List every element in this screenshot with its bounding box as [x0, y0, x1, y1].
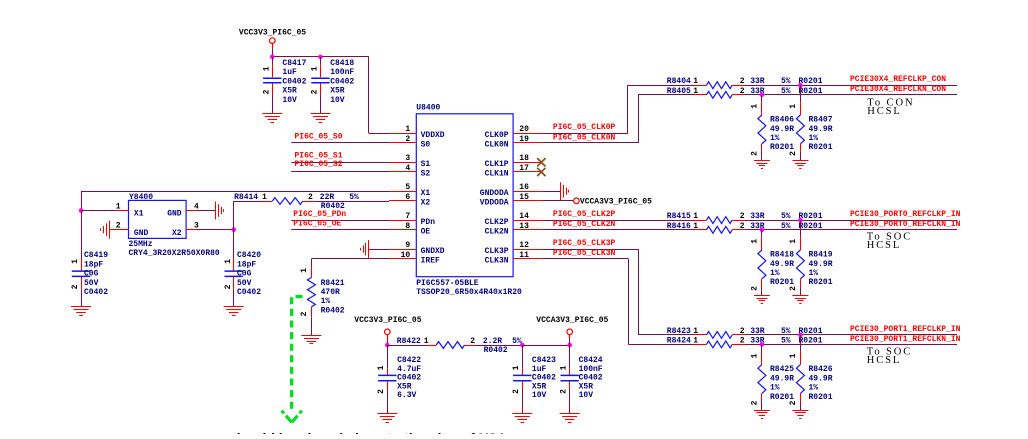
svg-text:1: 1 [116, 202, 121, 211]
annotation To SOC HCSL (port1) [867, 347, 912, 367]
svg-text:470R: 470R [321, 288, 340, 297]
svg-text:10V: 10V [579, 391, 594, 400]
svg-text:CLK2P: CLK2P [485, 218, 509, 227]
capacitor C8417 [263, 57, 307, 114]
svg-text:33R: 33R [750, 212, 765, 221]
net label PI6C_05_CLK3N [553, 249, 616, 258]
net label PI6C_05_OE [293, 220, 341, 229]
svg-text:1: 1 [693, 212, 698, 221]
svg-text:C0402: C0402 [579, 374, 603, 383]
resistor R8422 [387, 337, 522, 355]
svg-text:11: 11 [519, 251, 529, 260]
net label PI6C_05_CLK3P [553, 239, 616, 248]
svg-text:2: 2 [789, 400, 798, 405]
svg-text:PI6C_05_CLK2P: PI6C_05_CLK2P [553, 210, 616, 219]
svg-text:2: 2 [740, 87, 745, 96]
resistor R8418 [751, 230, 795, 296]
svg-text:2: 2 [308, 193, 313, 202]
svg-text:2: 2 [512, 389, 521, 394]
junction at C8417 [270, 55, 275, 60]
svg-text:CLK0P: CLK0P [485, 131, 509, 140]
svg-text:1: 1 [405, 125, 410, 134]
svg-text:100nF: 100nF [579, 365, 603, 374]
ground of R8418 [754, 296, 770, 304]
svg-text:should be placed close to the: should be placed close to the pins of U8… [229, 430, 505, 434]
svg-text:1: 1 [377, 365, 386, 370]
svg-text:13: 13 [519, 222, 529, 231]
svg-text:X5R: X5R [532, 382, 547, 391]
svg-text:PI6C_05_S2: PI6C_05_S2 [295, 160, 343, 169]
svg-text:C0G: C0G [237, 270, 252, 279]
svg-text:1: 1 [262, 193, 267, 202]
junction R8406 on N wire [760, 93, 765, 98]
no-connect X pin 17 [537, 168, 545, 176]
svg-text:22R: 22R [320, 193, 335, 202]
ground of R8421 [301, 336, 321, 344]
resistor R8424 [667, 336, 957, 348]
svg-text:1%: 1% [809, 269, 819, 278]
svg-text:3: 3 [405, 154, 410, 163]
wire rail corner down to pin 1 [369, 57, 390, 134]
svg-text:C0402: C0402 [84, 288, 108, 297]
svg-text:1: 1 [263, 66, 272, 71]
svg-text:PI6C_05_OE: PI6C_05_OE [293, 220, 341, 229]
svg-text:PI6C_05_PDn: PI6C_05_PDn [293, 210, 346, 219]
svg-text:1: 1 [751, 104, 760, 109]
svg-text:R0201: R0201 [799, 336, 823, 345]
svg-text:1: 1 [693, 77, 698, 86]
wire PI6C_05_S1 [291, 162, 389, 164]
svg-text:5%: 5% [781, 77, 791, 86]
ground of C8419 [71, 307, 91, 316]
svg-text:PCIE30X4_REFCLKN_CON: PCIE30X4_REFCLKN_CON [850, 85, 946, 94]
svg-text:HCSL: HCSL [867, 355, 901, 366]
svg-text:VCCA3V3_PI6C_05: VCCA3V3_PI6C_05 [580, 198, 652, 207]
capacitor C8419 [71, 251, 108, 306]
power symbol VCC3V3_PI6C_05 (bottom) [354, 316, 421, 339]
svg-text:1: 1 [789, 104, 798, 109]
svg-text:18: 18 [519, 154, 529, 163]
svg-text:OE: OE [421, 228, 431, 237]
svg-text:5%: 5% [781, 327, 791, 336]
svg-text:C0402: C0402 [237, 288, 261, 297]
svg-text:R8424: R8424 [667, 336, 691, 345]
svg-text:1: 1 [693, 336, 698, 345]
net label PCIE30_PORT0_REFCLKN_IN [850, 220, 961, 229]
svg-text:33R: 33R [750, 77, 765, 86]
svg-text:1: 1 [751, 353, 760, 358]
svg-text:R8414: R8414 [234, 193, 258, 202]
svg-text:4: 4 [405, 164, 410, 173]
svg-text:10V: 10V [282, 96, 297, 105]
svg-text:2: 2 [300, 311, 309, 316]
svg-text:VDDXD: VDDXD [421, 131, 445, 140]
cropped note text (bottom edge) [229, 430, 505, 439]
wire crystal pin 1 to C8419 [81, 211, 83, 259]
svg-text:1%: 1% [770, 269, 780, 278]
svg-text:R0402: R0402 [484, 346, 508, 355]
svg-text:2: 2 [224, 284, 233, 289]
svg-text:IREF: IREF [421, 257, 440, 266]
ground of R8406 [754, 161, 770, 169]
svg-text:C8418: C8418 [330, 59, 354, 68]
svg-text:R8421: R8421 [321, 279, 345, 288]
svg-text:PDn: PDn [421, 218, 436, 227]
svg-text:2.2R: 2.2R [483, 337, 502, 346]
net label PCIE30X4_REFCLKP_CON [850, 75, 946, 84]
power symbol VCCA3V3_PI6C_05 (bottom) [536, 316, 608, 345]
svg-text:PI6C_05_CLK2N: PI6C_05_CLK2N [553, 220, 616, 229]
svg-text:1uF: 1uF [282, 68, 297, 77]
svg-text:C0402: C0402 [330, 78, 354, 87]
junction crystal pin 3 [231, 227, 236, 232]
svg-text:2: 2 [751, 400, 760, 405]
power symbol VCC3V3_PI6C_05 (top) [239, 29, 306, 49]
ground of R8425 [754, 411, 770, 419]
svg-text:2: 2 [560, 389, 569, 394]
svg-text:2: 2 [71, 284, 80, 289]
svg-text:1: 1 [693, 87, 698, 96]
svg-text:49.9R: 49.9R [809, 260, 833, 269]
ground at pin 9 GNDXD [361, 240, 369, 258]
svg-text:1: 1 [693, 222, 698, 231]
svg-text:49.9R: 49.9R [770, 260, 794, 269]
svg-text:S0: S0 [421, 141, 431, 150]
IC U8400 [389, 103, 542, 297]
svg-text:19: 19 [519, 135, 529, 144]
capacitor C8420 [224, 230, 261, 307]
wire PI6C_05_PDn [291, 220, 389, 222]
svg-text:PCIE30_PORT0_REFCLKP_IN: PCIE30_PORT0_REFCLKP_IN [850, 210, 961, 219]
svg-text:18pF: 18pF [84, 260, 103, 269]
svg-text:10: 10 [401, 251, 411, 260]
wire CLK0N [542, 95, 695, 143]
svg-text:C0402: C0402 [282, 78, 306, 87]
svg-text:1: 1 [424, 337, 429, 346]
wire PI6C_05_OE [291, 229, 389, 231]
svg-text:2: 2 [751, 286, 760, 291]
junction C8422 [385, 343, 390, 348]
svg-text:1%: 1% [321, 297, 331, 306]
resistor R8404 [667, 77, 957, 88]
wire CLK2N [542, 229, 695, 231]
svg-text:50V: 50V [84, 279, 99, 288]
wire crystal pin 1 horizontal [81, 210, 118, 212]
svg-text:PI6C_05_S0: PI6C_05_S0 [295, 133, 343, 142]
resistor R8407 [789, 85, 833, 160]
svg-text:HCSL: HCSL [867, 240, 901, 251]
svg-text:PI6C_05_CLK3P: PI6C_05_CLK3P [553, 239, 616, 248]
svg-text:1: 1 [311, 66, 320, 71]
svg-text:14: 14 [519, 212, 529, 221]
net label PI6C_05_CLK0P [553, 123, 616, 132]
svg-text:X5R: X5R [397, 382, 412, 391]
svg-text:2: 2 [751, 151, 760, 156]
svg-text:CLK3N: CLK3N [485, 257, 509, 266]
svg-text:R8405: R8405 [667, 87, 691, 96]
svg-text:R0201: R0201 [809, 143, 833, 152]
wire X1 net to U8400 pin 5 [81, 191, 389, 193]
svg-text:2: 2 [740, 77, 745, 86]
net label PI6C_05_CLK2P [553, 210, 616, 219]
svg-text:5%: 5% [781, 222, 791, 231]
svg-text:VCC3V3_PI6C_05: VCC3V3_PI6C_05 [239, 29, 306, 38]
net label PI6C_05_CLK2N [553, 220, 616, 229]
ground of C8422 [377, 414, 397, 423]
svg-text:R0402: R0402 [321, 306, 345, 315]
wire crystal pin 3 to junction [196, 229, 234, 231]
svg-text:1: 1 [512, 365, 521, 370]
svg-text:CLK3P: CLK3P [485, 247, 509, 256]
capacitor C8423 [512, 345, 556, 413]
svg-text:C8419: C8419 [84, 251, 108, 260]
wire PI6C_05_S2 [291, 171, 389, 173]
net label PCIE30X4_REFCLKN_CON [850, 85, 946, 94]
svg-text:R0201: R0201 [770, 393, 794, 402]
svg-text:C0402: C0402 [397, 374, 421, 383]
svg-text:6: 6 [405, 193, 410, 202]
resistor R8414 [234, 193, 389, 211]
svg-text:1uF: 1uF [532, 365, 547, 374]
svg-text:S2: S2 [421, 170, 431, 179]
junction R8407 on P wire [798, 83, 803, 88]
ground of C8418 [311, 114, 331, 123]
svg-text:C8423: C8423 [532, 356, 556, 365]
resistor R8406 [751, 95, 795, 161]
svg-text:7: 7 [405, 212, 410, 221]
wire PI6C_05_S0 [291, 142, 389, 144]
svg-text:GND: GND [134, 229, 149, 238]
wire CLK3P [542, 249, 695, 335]
svg-text:5: 5 [405, 183, 410, 192]
svg-text:PCIE30_PORT1_REFCLKP_IN: PCIE30_PORT1_REFCLKP_IN [850, 325, 961, 334]
wire pin 9 to ground [369, 249, 389, 251]
svg-text:C8417: C8417 [282, 59, 306, 68]
resistor R8405 [667, 87, 957, 98]
svg-text:2: 2 [377, 389, 386, 394]
svg-text:12: 12 [519, 241, 529, 250]
annotation To CON HCSL [867, 98, 914, 118]
svg-text:R8426: R8426 [809, 365, 833, 374]
svg-text:R0201: R0201 [799, 222, 823, 231]
ground of R8426 [792, 411, 808, 419]
svg-text:2: 2 [789, 286, 798, 291]
svg-text:R0201: R0201 [770, 143, 794, 152]
svg-text:5%: 5% [781, 212, 791, 221]
svg-text:15: 15 [519, 193, 529, 202]
wire CLK0P [542, 85, 695, 133]
junction R8418 on N wire [760, 228, 765, 233]
wire top rail [272, 56, 369, 58]
svg-text:R0201: R0201 [799, 87, 823, 96]
junction C8424 / VCCA [567, 343, 572, 348]
svg-text:R0201: R0201 [809, 278, 833, 287]
svg-text:6.3V: 6.3V [397, 391, 416, 400]
svg-text:4: 4 [194, 202, 199, 211]
svg-text:PI6C_05_CLK3N: PI6C_05_CLK3N [553, 249, 616, 258]
svg-text:2: 2 [405, 135, 410, 144]
svg-text:1: 1 [789, 239, 798, 244]
resistor R8423 [667, 327, 957, 339]
svg-text:Y8400: Y8400 [129, 193, 153, 202]
svg-text:1: 1 [224, 259, 233, 264]
svg-text:5%: 5% [781, 87, 791, 96]
no-connect X pin 18 [537, 158, 545, 166]
svg-text:18pF: 18pF [237, 260, 256, 269]
capacitor C8424 [560, 345, 603, 413]
svg-text:PCIE30X4_REFCLKP_CON: PCIE30X4_REFCLKP_CON [850, 75, 946, 84]
svg-text:CRY4_3R20X2R50X0R80: CRY4_3R20X2R50X0R80 [129, 249, 220, 258]
svg-text:50V: 50V [237, 279, 252, 288]
svg-text:R8404: R8404 [667, 77, 691, 86]
svg-text:R8425: R8425 [770, 365, 794, 374]
svg-text:1: 1 [751, 239, 760, 244]
svg-text:X1: X1 [421, 189, 431, 198]
svg-text:2: 2 [740, 222, 745, 231]
svg-text:5%: 5% [781, 336, 791, 345]
svg-text:1: 1 [789, 353, 798, 358]
svg-text:CLK2N: CLK2N [485, 228, 509, 237]
junction C8423 [520, 343, 525, 348]
svg-text:PCIE30_PORT0_REFCLKN_IN: PCIE30_PORT0_REFCLKN_IN [850, 220, 961, 229]
svg-text:1: 1 [560, 365, 569, 370]
wire GNDODA pin 16 [542, 191, 560, 193]
wire VCC3V3 vertical to rail [272, 48, 274, 57]
wire VCC3V3 drop to bottom rail [387, 339, 389, 345]
svg-text:2: 2 [740, 212, 745, 221]
resistor R8419 [789, 220, 833, 295]
svg-text:R0201: R0201 [809, 393, 833, 402]
ground of C8417 [262, 114, 282, 123]
ground of R8419 [792, 296, 808, 304]
wire junction up to R8414 [234, 201, 263, 230]
resistor R8421 [300, 267, 345, 336]
svg-text:CLK1N: CLK1N [485, 170, 509, 179]
svg-text:X5R: X5R [579, 382, 594, 391]
wire crystal pin 4 to ground [196, 210, 215, 212]
svg-text:20: 20 [519, 125, 529, 134]
svg-text:PI6C_05_S1: PI6C_05_S1 [295, 152, 343, 161]
svg-text:49.9R: 49.9R [770, 374, 794, 383]
svg-text:CLK0N: CLK0N [485, 141, 509, 150]
resistor R8415 [667, 212, 957, 223]
wire X1 drop to crystal [81, 191, 83, 210]
svg-text:2: 2 [263, 89, 272, 94]
svg-text:1%: 1% [770, 134, 780, 143]
svg-text:C0G: C0G [84, 270, 99, 279]
svg-text:GNDXD: GNDXD [421, 247, 445, 256]
svg-text:25MHz: 25MHz [129, 240, 153, 249]
wire CLK3N [542, 259, 695, 345]
ground of C8424 [560, 414, 580, 423]
svg-text:PI6C557-05BLE: PI6C557-05BLE [416, 279, 479, 288]
svg-text:C8422: C8422 [397, 356, 421, 365]
net label PCIE30_PORT0_REFCLKP_IN [850, 210, 961, 219]
svg-text:8: 8 [405, 222, 410, 231]
svg-text:PCIE30_PORT1_REFCLKN_IN: PCIE30_PORT1_REFCLKN_IN [850, 335, 961, 344]
svg-text:49.9R: 49.9R [809, 125, 833, 134]
svg-text:2: 2 [470, 337, 475, 346]
svg-text:16: 16 [519, 183, 529, 192]
svg-text:VCC3V3_PI6C_05: VCC3V3_PI6C_05 [354, 316, 421, 325]
svg-text:C8420: C8420 [237, 251, 261, 260]
ground at crystal pin 2 [101, 221, 119, 239]
svg-text:X2: X2 [172, 229, 182, 238]
svg-text:9: 9 [405, 241, 410, 250]
svg-text:GND: GND [167, 210, 182, 219]
svg-text:R8415: R8415 [667, 212, 691, 221]
svg-text:4.7uF: 4.7uF [397, 365, 421, 374]
svg-text:1: 1 [71, 259, 80, 264]
ground at pin 16 [561, 182, 569, 200]
svg-text:5%: 5% [349, 193, 359, 202]
svg-text:X5R: X5R [282, 87, 297, 96]
junction R8426 on P wire [798, 333, 803, 338]
svg-text:R8423: R8423 [667, 327, 691, 336]
svg-text:R8406: R8406 [770, 116, 794, 125]
svg-text:C8424: C8424 [579, 356, 603, 365]
svg-text:33R: 33R [750, 327, 765, 336]
svg-text:100nF: 100nF [330, 68, 354, 77]
junction R8419 on P wire [798, 218, 803, 223]
svg-text:1%: 1% [809, 384, 819, 393]
svg-text:1: 1 [693, 327, 698, 336]
svg-text:X2: X2 [421, 199, 431, 208]
svg-text:1: 1 [300, 268, 309, 273]
probe arrow (green dashed) [282, 297, 303, 423]
net label PI6C_05_CLK0N [553, 133, 616, 142]
svg-text:1%: 1% [809, 134, 819, 143]
net label PI6C_05_S1 [295, 152, 343, 161]
ground of R8407 [792, 161, 808, 169]
svg-text:10V: 10V [330, 96, 345, 105]
junction at C8418 [318, 55, 323, 60]
svg-text:2: 2 [789, 151, 798, 156]
svg-text:S1: S1 [421, 160, 431, 169]
crystal Y8400 [116, 193, 220, 258]
capacitor C8422 [377, 345, 421, 413]
svg-text:X1: X1 [134, 210, 144, 219]
net label PCIE30_PORT1_REFCLKN_IN [850, 335, 961, 344]
svg-text:U8400: U8400 [416, 103, 440, 112]
svg-text:2: 2 [740, 336, 745, 345]
svg-text:2: 2 [311, 89, 320, 94]
wire rail to VCCA [522, 345, 569, 347]
ground of C8423 [512, 414, 532, 423]
svg-text:49.9R: 49.9R [770, 125, 794, 134]
svg-text:R8416: R8416 [667, 222, 691, 231]
svg-text:PI6C_05_CLK0P: PI6C_05_CLK0P [553, 123, 616, 132]
ground at crystal pin 4 [216, 202, 224, 220]
wire CLK2P [542, 220, 695, 222]
net label PCIE30_PORT1_REFCLKP_IN [850, 325, 961, 334]
resistor R8425 [751, 344, 795, 410]
net label PI6C_05_PDn [293, 210, 346, 219]
junction crystal pin 1 [79, 208, 84, 213]
svg-text:10V: 10V [532, 391, 547, 400]
svg-text:2: 2 [740, 327, 745, 336]
svg-text:R8422: R8422 [397, 337, 421, 346]
svg-text:1%: 1% [770, 384, 780, 393]
svg-text:X5R: X5R [330, 87, 345, 96]
svg-text:PI6C_05_CLK0N: PI6C_05_CLK0N [553, 133, 616, 142]
svg-text:R8419: R8419 [809, 251, 833, 260]
svg-text:TSSOP20_6R50x4R40x1R20: TSSOP20_6R50x4R40x1R20 [416, 288, 522, 297]
svg-text:CLK1P: CLK1P [485, 160, 509, 169]
svg-text:17: 17 [519, 164, 529, 173]
svg-text:R8418: R8418 [770, 251, 794, 260]
svg-text:GNDODA: GNDODA [480, 189, 509, 198]
